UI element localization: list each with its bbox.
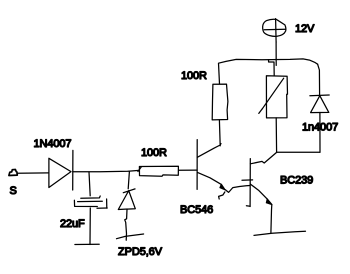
label BC239 bbox=[280, 175, 313, 187]
label BC546 bbox=[180, 204, 213, 216]
label 100R (upper) bbox=[181, 70, 207, 82]
diode D1 1N4007 (input) bbox=[49, 150, 73, 190]
wire Q1 emitter to Q2 base bbox=[219, 180, 253, 199]
wire R2 to Q1 base bbox=[179, 169, 197, 171]
label S bbox=[10, 185, 17, 197]
wire C1 to ground bbox=[89, 208, 91, 245]
wire junction to D3 bbox=[128, 171, 129, 188]
label ZPD5,6V bbox=[118, 246, 163, 258]
svg-text:22uF: 22uF bbox=[60, 218, 85, 230]
label 1N4007 bbox=[34, 138, 72, 150]
resistor R1 100R (vertical) bbox=[212, 84, 228, 120]
wire D2 to collector node bbox=[319, 113, 321, 153]
wire collector node (horizontal) bbox=[277, 151, 320, 153]
wire S to D1 bbox=[17, 172, 49, 174]
label 22uF bbox=[60, 218, 85, 230]
wire junction to C1 bbox=[89, 172, 90, 196]
svg-text:100R: 100R bbox=[141, 147, 167, 159]
wire D3 to ground bbox=[125, 210, 127, 241]
lamp M1 (12V indicator circle with cross) bbox=[263, 19, 286, 42]
wire lamp to bus bbox=[275, 42, 277, 65]
wire +12V bus bbox=[219, 59, 318, 84]
wire K1 to collector node bbox=[275, 118, 277, 152]
svg-text:BC239: BC239 bbox=[280, 175, 313, 187]
svg-text:ZPD5,6V: ZPD5,6V bbox=[118, 246, 163, 258]
svg-text:1N4007: 1N4007 bbox=[34, 138, 72, 150]
terminal S bbox=[9, 170, 17, 176]
svg-text:BC546: BC546 bbox=[180, 204, 213, 216]
label 100R (lower) bbox=[141, 147, 167, 159]
zener diode D3 ZPD5,6V bbox=[118, 189, 135, 210]
transistor Q1 BC546 bbox=[197, 140, 225, 191]
label 12V bbox=[295, 23, 315, 35]
ground (D3) bbox=[117, 234, 144, 239]
resistor R2 100R (horizontal) bbox=[138, 166, 179, 176]
ground (C1) bbox=[75, 243, 99, 245]
relay coil K1 bbox=[259, 76, 288, 118]
svg-text:100R: 100R bbox=[181, 70, 207, 82]
svg-text:S: S bbox=[10, 185, 17, 197]
svg-text:12V: 12V bbox=[295, 23, 315, 35]
wire R1 to Q1 collector bbox=[218, 120, 221, 146]
diode D2 1n4007 (flyback) bbox=[310, 95, 329, 113]
label 1n4007 bbox=[302, 122, 338, 134]
wire bus to relay K1 bbox=[269, 60, 275, 76]
transistor Q2 BC239 bbox=[246, 152, 276, 232]
capacitor C1 22uF bbox=[74, 196, 107, 208]
wire bus to diode D2 bbox=[318, 64, 320, 95]
ground (Q2 emitter) bbox=[254, 231, 306, 235]
wire D1 to R2 / junctions bbox=[73, 170, 139, 171]
